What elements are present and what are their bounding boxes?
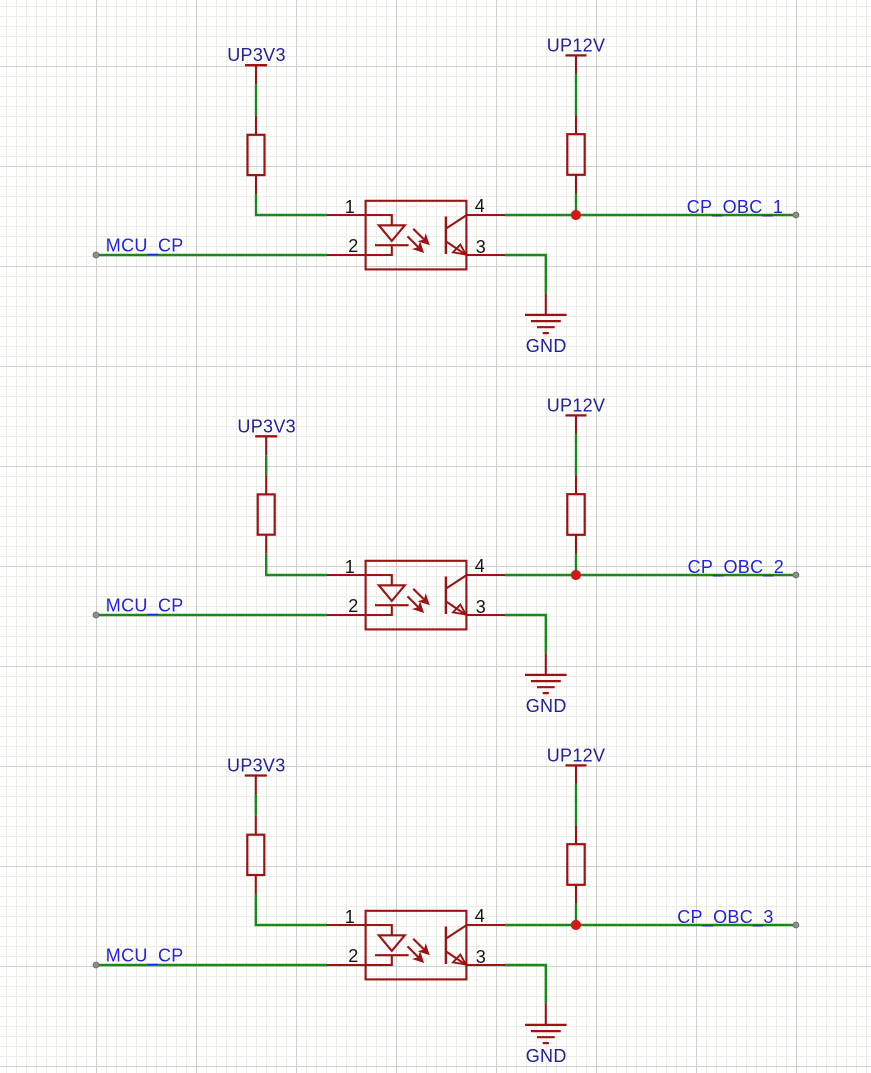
- wire pin3 to GND (circuit 2): [505, 615, 546, 653]
- pin 1 (U2): [327, 574, 392, 576]
- node endpoint MCU_CP (circuit 2): [93, 612, 99, 618]
- wire pin3 to GND (circuit 3): [505, 965, 546, 1003]
- pin 4 (U1): [466, 214, 505, 216]
- pin 2 (U1): [327, 254, 392, 256]
- wire MCU_CP (circuit 2): [96, 614, 327, 616]
- svg-text:4: 4: [475, 196, 485, 216]
- wire R to junction (circuit 1): [575, 194, 577, 215]
- node endpoint CP_OBC_2: [793, 572, 799, 578]
- power port UP12V (circuit 1): [566, 54, 587, 56]
- wire UP3V3 to R (circuit 1): [255, 84, 257, 116]
- LED inside U1: [391, 214, 393, 225]
- svg-text:3: 3: [476, 237, 486, 257]
- wire R to pin 1 (circuit 2): [266, 554, 327, 575]
- svg-text:1: 1: [345, 197, 355, 217]
- phototransistor inside U2: [445, 577, 447, 615]
- wire R to junction (circuit 3): [575, 904, 577, 925]
- wire UP3V3 to R (circuit 3): [255, 795, 257, 816]
- svg-text:CP_OBC_1: CP_OBC_1: [687, 197, 783, 218]
- node endpoint CP_OBC_1: [793, 212, 799, 218]
- power port UP12V (circuit 2): [566, 414, 587, 416]
- svg-text:GND: GND: [526, 696, 567, 716]
- svg-text:UP12V: UP12V: [547, 35, 606, 55]
- svg-text:GND: GND: [526, 336, 567, 356]
- wire R to junction (circuit 2): [575, 554, 577, 575]
- pin 3 (U3): [466, 964, 505, 966]
- svg-text:MCU_CP: MCU_CP: [106, 596, 184, 617]
- svg-text:UP3V3: UP3V3: [227, 756, 286, 776]
- junction (circuit 2): [571, 570, 581, 580]
- node endpoint MCU_CP (circuit 1): [93, 252, 99, 258]
- resistor R (UP3V3 pull-up, circuit 1): [255, 116, 257, 135]
- wire UP12V to R (circuit 3): [575, 784, 577, 825]
- svg-text:MCU_CP: MCU_CP: [106, 236, 184, 257]
- resistor R (UP3V3 pull-up, circuit 3): [255, 816, 257, 835]
- pin 4 (U2): [466, 574, 505, 576]
- svg-text:UP3V3: UP3V3: [227, 45, 286, 65]
- LED light arrow b (U1): [408, 236, 419, 247]
- LED light arrow a (U2): [413, 589, 424, 600]
- LED light arrow a (U1): [413, 229, 424, 240]
- power port UP3V3 (circuit 2): [255, 435, 277, 437]
- svg-text:2: 2: [348, 946, 358, 966]
- wire R to pin 1 (circuit 3): [256, 894, 327, 925]
- LED inside U3: [391, 924, 393, 935]
- power port UP3V3 (circuit 3): [245, 774, 267, 776]
- pin 2 (U3): [327, 964, 392, 966]
- svg-text:4: 4: [475, 906, 485, 926]
- svg-text:3: 3: [476, 947, 486, 967]
- wire CP_OBC_3: [505, 924, 796, 926]
- svg-text:2: 2: [348, 596, 358, 616]
- junction (circuit 3): [571, 920, 581, 930]
- ground symbol (circuit 1): [545, 293, 547, 315]
- svg-text:UP12V: UP12V: [547, 395, 606, 415]
- svg-text:1: 1: [345, 907, 355, 927]
- ground symbol (circuit 2): [545, 653, 547, 675]
- wire pin3 to GND (circuit 1): [505, 255, 546, 293]
- wire UP12V to R (circuit 1): [575, 74, 577, 115]
- pin 1 (U3): [327, 924, 392, 926]
- ground symbol (circuit 3): [545, 1003, 547, 1025]
- node endpoint MCU_CP (circuit 3): [93, 962, 99, 968]
- power port UP12V (circuit 3): [566, 764, 587, 766]
- resistor R (UP3V3 pull-up, circuit 2): [265, 475, 267, 494]
- wire MCU_CP (circuit 1): [96, 254, 327, 256]
- junction (circuit 1): [571, 210, 581, 220]
- wire R to pin 1 (circuit 1): [256, 194, 327, 215]
- pin 4 (U3): [466, 924, 505, 926]
- wire CP_OBC_1: [505, 214, 796, 216]
- LED light arrow a (U3): [413, 939, 424, 950]
- svg-text:CP_OBC_2: CP_OBC_2: [688, 557, 784, 578]
- svg-text:GND: GND: [526, 1046, 567, 1066]
- wire CP_OBC_2: [505, 574, 796, 576]
- pin 2 (U2): [327, 614, 392, 616]
- LED inside U2: [391, 574, 393, 585]
- optocoupler U2 body: [366, 561, 467, 630]
- optocoupler U3 body: [366, 911, 467, 980]
- pin 3 (U2): [466, 614, 505, 616]
- wire UP3V3 to R (circuit 2): [265, 455, 267, 475]
- resistor R (UP12V pull-up, circuit 2): [575, 475, 577, 494]
- resistor R (UP12V pull-up, circuit 1): [575, 115, 577, 134]
- svg-text:1: 1: [345, 557, 355, 577]
- power port UP3V3 (circuit 1): [245, 64, 267, 66]
- phototransistor inside U1: [445, 217, 447, 255]
- resistor R (UP12V pull-up, circuit 3): [575, 825, 577, 844]
- pin 1 (U1): [327, 214, 392, 216]
- LED light arrow b (U2): [408, 596, 419, 607]
- optocoupler U1 body: [366, 201, 467, 270]
- svg-text:4: 4: [475, 556, 485, 576]
- pin 3 (U1): [466, 254, 505, 256]
- svg-text:MCU_CP: MCU_CP: [106, 946, 184, 967]
- svg-text:UP12V: UP12V: [547, 745, 606, 765]
- wire MCU_CP (circuit 3): [96, 964, 327, 966]
- node endpoint CP_OBC_3: [793, 922, 799, 928]
- svg-text:3: 3: [476, 597, 486, 617]
- svg-text:CP_OBC_3: CP_OBC_3: [677, 907, 773, 928]
- phototransistor inside U3: [445, 927, 447, 965]
- LED light arrow b (U3): [408, 946, 419, 957]
- svg-text:2: 2: [348, 236, 358, 256]
- svg-text:UP3V3: UP3V3: [237, 416, 296, 436]
- wire UP12V to R (circuit 2): [575, 434, 577, 475]
